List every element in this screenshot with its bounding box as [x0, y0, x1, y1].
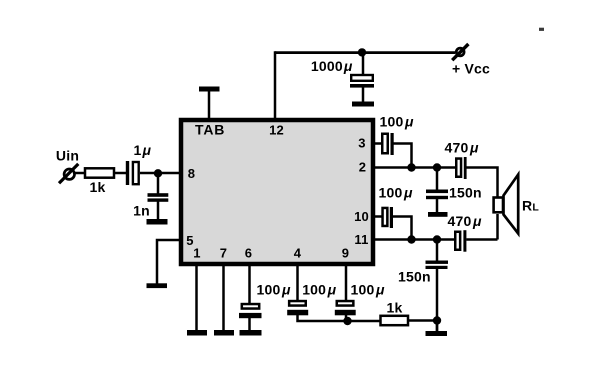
svg-text:11: 11 [354, 232, 368, 247]
svg-text:100μ: 100μ [379, 184, 413, 200]
svg-text:7: 7 [220, 246, 227, 261]
svg-text:1000μ: 1000μ [311, 58, 353, 74]
svg-text:9: 9 [342, 246, 349, 261]
svg-text:10: 10 [354, 209, 369, 224]
svg-text:150n: 150n [398, 269, 431, 285]
svg-text:100μ: 100μ [257, 282, 291, 298]
svg-text:1: 1 [193, 246, 200, 261]
svg-text:4: 4 [294, 246, 302, 261]
svg-text:1k: 1k [90, 179, 106, 195]
svg-text:3: 3 [358, 136, 365, 151]
svg-text:150n: 150n [449, 185, 482, 201]
svg-text:1n: 1n [133, 203, 150, 219]
svg-text:100μ: 100μ [302, 282, 336, 298]
svg-text:Uin: Uin [56, 148, 79, 164]
svg-text:1k: 1k [387, 300, 403, 316]
svg-text:1μ: 1μ [134, 142, 152, 158]
svg-text:+ Vcc: + Vcc [452, 61, 490, 77]
svg-text:100μ: 100μ [351, 282, 385, 298]
svg-text:470μ: 470μ [448, 213, 482, 229]
svg-text:12: 12 [269, 123, 284, 138]
svg-text:2: 2 [359, 160, 366, 175]
svg-text:470μ: 470μ [445, 140, 479, 156]
svg-text:TAB: TAB [195, 122, 225, 138]
svg-text:6: 6 [245, 246, 252, 261]
svg-text:100μ: 100μ [380, 113, 414, 129]
svg-text:8: 8 [188, 166, 195, 181]
